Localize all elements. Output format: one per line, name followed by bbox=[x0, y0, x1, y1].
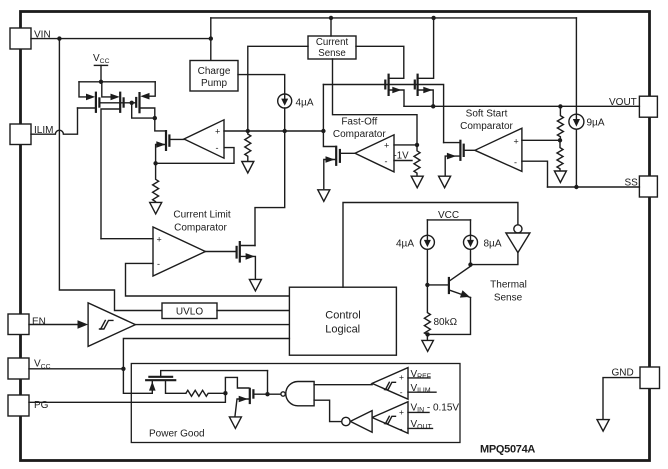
transistor Q5 (thermal BJT) bbox=[427, 265, 470, 335]
wire mirror rail bbox=[79, 81, 155, 83]
resistor R5 (divider bottom) bbox=[557, 140, 563, 171]
node thermal collector junction bbox=[468, 262, 472, 266]
wire 4uA to node bbox=[284, 108, 286, 131]
wire pass-fet gate line bbox=[323, 85, 443, 143]
wire VIN sense drop to UVLO bbox=[59, 39, 162, 311]
current source 4uA lower bbox=[396, 220, 434, 285]
pin VCC bbox=[8, 358, 29, 379]
ground bbox=[411, 176, 423, 188]
wire VCC pin bbox=[29, 368, 123, 370]
svg-text:Power Good: Power Good bbox=[149, 429, 205, 440]
charge pump U-CP bbox=[190, 61, 238, 92]
wire CS bottom to fast-off + bbox=[333, 59, 418, 145]
current source 4uA top bbox=[278, 94, 314, 109]
op-amp fast-off comparator bbox=[355, 135, 394, 172]
svg-text:Fast-Off: Fast-Off bbox=[341, 117, 377, 128]
svg-text:Current Limit: Current Limit bbox=[173, 210, 230, 221]
pin EN bbox=[8, 314, 29, 335]
wire comp- sense from control box bbox=[126, 263, 290, 296]
pin GND bbox=[640, 367, 660, 389]
svg-text:Current: Current bbox=[316, 37, 349, 48]
wire soft start + bbox=[522, 139, 560, 141]
wire fast-off - input, label -1V bbox=[394, 160, 412, 162]
svg-text:MPQ5074A: MPQ5074A bbox=[480, 444, 535, 456]
resistor R6 80k bbox=[424, 285, 430, 340]
svg-text:4µA: 4µA bbox=[396, 238, 414, 249]
svg-text:UVLO: UVLO bbox=[176, 306, 203, 317]
node M2 drain junction bbox=[431, 16, 435, 20]
transistor Q2 (current limit NMOS) bbox=[205, 241, 255, 279]
svg-text:9µA: 9µA bbox=[587, 118, 605, 129]
box power good bbox=[131, 364, 460, 443]
wire control to thermal inverter bbox=[343, 203, 518, 288]
svg-text:-: - bbox=[157, 259, 160, 269]
current source 9uA bbox=[569, 18, 605, 187]
op-amp PG comparator 2 bbox=[372, 402, 408, 434]
svg-text:Charge: Charge bbox=[198, 66, 231, 77]
pin VIN bbox=[10, 28, 31, 49]
wire VIN net bbox=[31, 38, 211, 40]
wire UVLO out bbox=[217, 310, 289, 312]
ground bbox=[439, 176, 451, 188]
svg-text:+: + bbox=[215, 127, 220, 137]
transistor Q1 (ILIM NMOS) bbox=[156, 130, 184, 163]
wire charge-pump drop bbox=[210, 18, 212, 61]
resistor R2 bbox=[245, 131, 251, 161]
resistor R4 (divider top) bbox=[557, 106, 563, 140]
transistor Q3 (fast-off NMOS) bbox=[323, 131, 355, 189]
svg-text:Comparator: Comparator bbox=[460, 121, 513, 132]
current source 8uA bbox=[464, 220, 502, 265]
ground bbox=[150, 202, 162, 214]
svg-text:+: + bbox=[157, 234, 162, 244]
svg-text:-: - bbox=[400, 423, 403, 433]
wire VREF input bbox=[408, 377, 430, 379]
wire mirror gate down bbox=[132, 103, 155, 118]
resistor R3 bbox=[414, 145, 420, 176]
svg-text:Logical: Logical bbox=[325, 324, 360, 336]
wire VIN-0.15V input bbox=[408, 411, 429, 413]
svg-text:Thermal: Thermal bbox=[490, 280, 527, 291]
ground bbox=[242, 162, 254, 174]
op-amp PG comparator 1 bbox=[372, 368, 408, 400]
pin ILIM bbox=[10, 124, 31, 145]
wire control stub 4 to VCC bbox=[123, 339, 289, 369]
box control logical bbox=[289, 287, 396, 355]
wire SS net bbox=[548, 186, 640, 188]
op-amp ILIM comparator bbox=[184, 120, 224, 158]
wire PG gate line up bbox=[267, 371, 269, 395]
svg-text:+: + bbox=[384, 141, 389, 151]
wire jog to Q7 drain bbox=[225, 377, 249, 393]
wire VOUT net bbox=[404, 105, 639, 107]
svg-text:-: - bbox=[400, 387, 403, 397]
VCC rail thermal section bbox=[427, 210, 470, 221]
wire ILIM main node bbox=[248, 130, 324, 132]
transistor Q4 (soft start NMOS) bbox=[444, 140, 475, 176]
wire NAND input 2 bbox=[314, 400, 342, 421]
current sense box U-CS bbox=[308, 36, 356, 59]
wire VILIM input bbox=[408, 391, 436, 393]
wire top rail bbox=[211, 17, 577, 19]
node PG gate junction bbox=[265, 392, 269, 396]
svg-text:Comparator: Comparator bbox=[333, 129, 386, 140]
svg-text:+: + bbox=[514, 136, 519, 146]
wire feedback to comparator minus bbox=[156, 148, 234, 164]
svg-text:-1V: -1V bbox=[394, 151, 410, 162]
ground bbox=[318, 190, 330, 202]
transistor Q7 (PG pull-down NMOS) bbox=[235, 388, 281, 417]
op-amp current limit comparator bbox=[153, 227, 205, 276]
wire EN buffer out bbox=[135, 324, 289, 326]
svg-text:Sense: Sense bbox=[318, 48, 345, 59]
ground bbox=[597, 420, 609, 432]
gate NAND (mirrored, output bubble left) bbox=[281, 382, 314, 406]
transistor Q6 (PG pull-up PMOS) bbox=[145, 371, 267, 394]
transistor Qa (PMOS mirror left) bbox=[78, 82, 100, 113]
ground bbox=[249, 279, 261, 291]
wire comp+ bbox=[224, 130, 248, 132]
svg-text:-: - bbox=[216, 143, 219, 153]
box UVLO bbox=[162, 303, 217, 319]
wire PG pin bbox=[29, 393, 225, 402]
transistor M1 (pass NMOS 1) bbox=[385, 74, 404, 107]
ground bbox=[554, 171, 566, 183]
svg-text:Comparator: Comparator bbox=[174, 223, 227, 234]
resistor R1 bbox=[153, 163, 159, 202]
inverter PG bbox=[342, 411, 372, 433]
wire to ILIM NMOS drain bbox=[155, 118, 166, 131]
svg-text:+: + bbox=[399, 407, 404, 417]
svg-text:8µA: 8µA bbox=[484, 238, 502, 249]
svg-text:4µA: 4µA bbox=[296, 98, 314, 109]
node VIN-junction bbox=[57, 36, 61, 40]
resistor R7 bbox=[186, 390, 226, 396]
wire comp+ from mirror bbox=[101, 238, 153, 240]
wire 4uA node down to current limit NMOS drain bbox=[255, 131, 285, 246]
svg-text:EN: EN bbox=[32, 317, 46, 328]
node emitter/resistor junction bbox=[425, 332, 429, 336]
svg-text:+: + bbox=[399, 372, 404, 382]
inverter thermal bbox=[471, 225, 530, 265]
transistor Qc (PMOS right) bbox=[132, 82, 156, 118]
wire fast-off + input bbox=[394, 144, 417, 146]
svg-text:-: - bbox=[385, 156, 388, 166]
wire soft start - to SS bbox=[522, 161, 548, 187]
svg-text:Pump: Pump bbox=[201, 78, 228, 89]
wire CS right to M1 drain bbox=[356, 46, 404, 78]
pin PG bbox=[8, 395, 29, 416]
pin VOUT bbox=[639, 96, 657, 117]
Vcc supply symbol top-left bbox=[93, 53, 110, 84]
wire VCC to PG pullup bbox=[123, 369, 152, 394]
svg-text:Soft Start: Soft Start bbox=[466, 109, 508, 120]
wire mirror gate line bbox=[99, 102, 131, 104]
svg-text:Control: Control bbox=[325, 310, 360, 322]
transistor Qb (PMOS mirror mid) bbox=[101, 82, 124, 239]
svg-text:-: - bbox=[514, 157, 517, 167]
wire VOUT input bbox=[408, 427, 433, 429]
wire charge pump output bbox=[238, 75, 285, 94]
wire GND pin bbox=[603, 378, 640, 419]
wire NAND input 1 bbox=[314, 384, 372, 386]
transistor M2 (pass NMOS 2) bbox=[415, 18, 434, 106]
svg-text:80kΩ: 80kΩ bbox=[434, 317, 458, 328]
node feedback bbox=[153, 161, 157, 165]
node BJT base junction bbox=[425, 283, 429, 287]
wire ILIM with hop bbox=[31, 108, 78, 134]
ground bbox=[229, 417, 241, 429]
wire CS top stub bbox=[330, 18, 332, 36]
ground bbox=[422, 340, 434, 351]
op-amp soft start comparator bbox=[475, 128, 522, 171]
pin SS bbox=[639, 176, 657, 197]
buffer EN schmitt bbox=[29, 303, 135, 347]
wire CS left to ILIM+ node bbox=[248, 46, 308, 131]
svg-text:GND: GND bbox=[612, 368, 634, 379]
svg-text:Sense: Sense bbox=[494, 293, 523, 304]
